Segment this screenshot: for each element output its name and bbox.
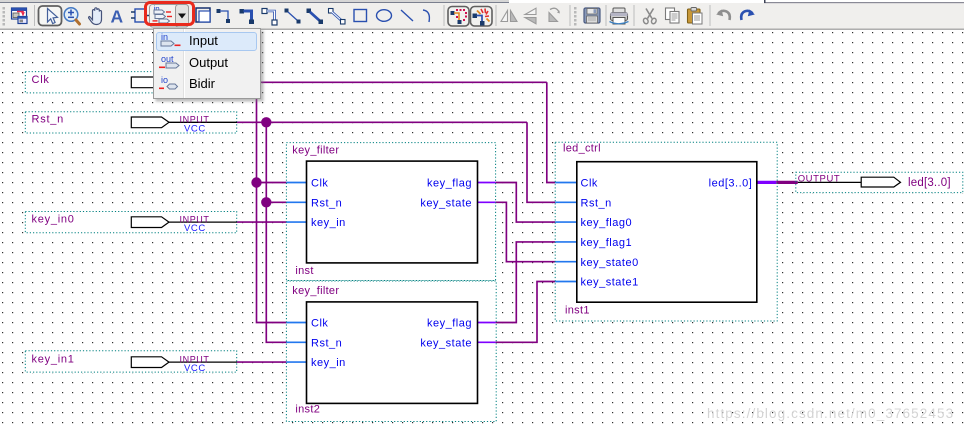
symbol tool icon [131,9,150,22]
pin stub inst2 key_state [478,341,496,343]
wire inst2 key_flag to led_ctrl key_flag1 [496,242,556,323]
svg-text:key_in0: key_in0 [32,213,75,225]
menu item Output [189,55,228,70]
svg-text:Clk: Clk [581,178,598,190]
block body inst [307,161,478,263]
svg-text:A: A [111,7,124,27]
rubberband toggle button 2 (pressed) [471,7,493,27]
toolbar grip handle [3,7,6,26]
svg-text:led[3..0]: led[3..0] [709,178,753,190]
svg-text:VCC: VCC [184,223,206,234]
input pin Rst_n [25,112,237,135]
ellipse tool icon [377,10,392,22]
icon detach window [12,8,28,24]
output pin symbol [861,177,900,187]
menu gutter separator [183,29,185,98]
junction dot at inst Clk branch [251,177,261,187]
grip handle 2 [574,7,577,26]
selection area white backgrounds (no grid dots inside selections) [25,71,964,422]
toolbar background [0,0,964,30]
block body inst2 [307,302,478,404]
menu icon input [159,32,183,49]
separator [606,5,607,26]
svg-text:Rst_n: Rst_n [311,337,342,349]
svg-text:key_state: key_state [420,337,472,349]
pin stub inst Rst_n [286,201,306,203]
pin stub inst2 Rst_n [286,341,306,343]
flip horizontal icon [501,11,517,22]
svg-text:key_flag: key_flag [427,178,472,190]
svg-text:inst1: inst1 [565,305,590,317]
input pin Clk [25,72,237,93]
rotate icon [549,8,560,21]
svg-text:inst: inst [295,265,313,277]
wire Clk net horizontal y=82.3 (purple, right of menu) [169,81,547,83]
pin stub inst2 Clk [286,322,306,324]
menu icon bidir [159,75,183,92]
paste icon [688,8,703,25]
pin stub led_ctrl Rst_n [555,201,577,203]
flip vertical icon [525,8,536,24]
undo icon [716,10,730,21]
block tool icon [196,8,210,22]
wire Rst_n vertical drop to led_ctrl Rst_n [527,122,555,202]
menu item Input (highlighted) [156,32,257,52]
svg-text:key_in: key_in [311,357,346,369]
pin stub inst key_flag [478,182,496,184]
svg-text:key_flag1: key_flag1 [581,237,633,249]
svg-text:io: io [161,75,168,85]
diagonal bus thick icon [307,9,324,25]
zoom tool icon [64,8,79,24]
blue pin stubs of block symbols [286,183,576,363]
wire Clk branch to inst Clk [257,182,287,184]
line tool icon [401,10,413,21]
junction dot at Rst_n branch x=266.3 y=122.3 [261,117,271,127]
svg-text:key_flag: key_flag [427,318,472,330]
copy icon [666,8,680,23]
bus led[3..0] thick stub (violet) [757,181,777,184]
bus tool (thick elbow) icon [240,9,255,24]
separator [710,5,711,26]
svg-text:key_state: key_state [420,197,472,209]
selection rect led_ctrl [555,142,777,321]
svg-text:Clk: Clk [311,318,328,330]
hand tool icon [89,8,102,25]
separator [496,5,497,26]
wire Clk vertical drop to led_ctrl Clk [547,82,555,182]
selection rect key_filter inst2 [286,281,496,422]
separator [444,5,445,26]
pin stub led_ctrl key_flag1 [555,241,577,243]
svg-text:https://blog.csdn.net/m0_37652: https://blog.csdn.net/m0_37652453 [707,406,954,421]
redo icon [741,10,755,21]
pin stub led_ctrl key_state0 [555,261,577,263]
input pin key_in0 [25,212,237,235]
diagonal node thin icon [285,9,301,24]
svg-text:OUTPUT: OUTPUT [798,174,841,185]
svg-text:led[3..0]: led[3..0] [908,177,951,189]
svg-text:key_in1: key_in1 [32,353,75,365]
pin stub inst2 key_flag [478,322,496,324]
svg-text:Clk: Clk [32,74,50,86]
selection rect key_filter inst [286,143,495,281]
svg-text:key_state0: key_state0 [581,257,639,269]
separator [634,5,635,26]
svg-text:inst2: inst2 [295,403,320,415]
violet output stubs [478,183,496,343]
pin tool button (highlighted by red box) [150,5,189,28]
cut icon (scissors) [643,9,657,25]
bus led[3..0] thick segment (purple) [776,181,797,184]
block body inst1 [577,162,757,303]
selection rect output pin [796,172,963,192]
wire Rst_n net horizontal y=122.3 [237,121,527,123]
svg-text:Clk: Clk [311,178,328,190]
wire output pin black segment [798,181,862,183]
menu icon output [159,54,183,71]
rubberband toggle button 1 (pressed) [448,7,469,27]
wire inst key_flag to led_ctrl key_flag0 [496,183,556,223]
save icon (floppy) [584,8,600,23]
svg-text:Rst_n: Rst_n [311,197,342,209]
wire Rst_n branch vertical x=266.3 down to inst2 Rst_n [266,122,286,342]
wire Clk branch vertical x=256.5 down to inst2 Clk [257,82,287,322]
menu item Bidir [189,76,215,91]
rectangle tool icon [354,10,367,22]
wire key_in1 to inst2 key_in [237,361,286,363]
wire inst2 key_state to led_ctrl key_state1 [496,282,556,343]
separator [570,5,571,26]
pin stub inst key_in [286,221,306,223]
svg-text:Rst_n: Rst_n [32,114,65,126]
svg-text:key_flag0: key_flag0 [581,217,633,229]
svg-text:key_in: key_in [311,217,346,229]
svg-text:VCC: VCC [184,123,206,134]
wire inst key_state to led_ctrl key_state0 [496,202,556,261]
pin stub inst key_state [478,201,496,203]
svg-text:key_filter: key_filter [292,145,339,157]
pin stub led_ctrl Clk [555,182,577,184]
pin stub inst2 key_in [286,361,306,363]
svg-text:key_state1: key_state1 [581,277,639,289]
selection tool button (pressed) [39,6,62,26]
wire key_in0 to inst key_in [237,221,286,223]
pin stub led_ctrl key_flag0 [555,221,577,223]
conduit tool icon [262,9,277,26]
node tool (thin elbow) icon [217,9,231,23]
pin stub inst Clk [286,182,306,184]
diagonal conduit icon [329,9,346,25]
svg-text:key_filter: key_filter [292,285,339,297]
svg-text:VCC: VCC [184,363,206,374]
arc tool icon [423,10,429,22]
red annotation box [144,1,196,27]
separator [34,5,35,26]
print icon [610,8,629,24]
svg-text:led_ctrl: led_ctrl [563,143,601,155]
pin stub led_ctrl key_state1 [555,281,577,283]
junction dot at inst Rst_n branch [261,197,271,207]
wire Rst_n branch to inst Rst_n [266,201,286,203]
input pin key_in1 [25,351,237,374]
svg-text:Rst_n: Rst_n [581,197,612,209]
